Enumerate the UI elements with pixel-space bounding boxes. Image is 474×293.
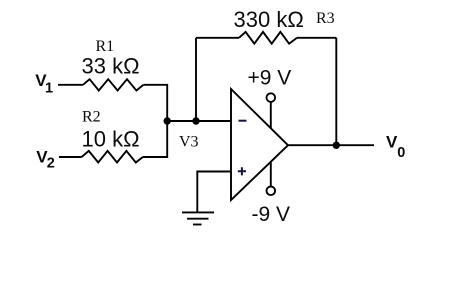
- label V1: [35, 71, 53, 96]
- wire feedback top left: [196, 37, 239, 39]
- resistor R3: [239, 32, 297, 44]
- svg-text:V: V: [386, 133, 398, 152]
- svg-text:330 kΩ: 330 kΩ: [234, 7, 304, 32]
- wire feedback top right: [297, 37, 336, 39]
- svg-text:2: 2: [47, 156, 55, 172]
- wire R1 to node: [143, 85, 167, 121]
- wire V1 lead: [58, 84, 83, 86]
- wire feedback left vertical: [195, 38, 197, 121]
- wire +9V pin: [270, 102, 272, 128]
- svg-text:R3: R3: [316, 10, 335, 27]
- wire V2 lead: [59, 156, 82, 158]
- svg-text:33 kΩ: 33 kΩ: [82, 53, 140, 78]
- svg-text:1: 1: [45, 80, 53, 96]
- resistor R1: [83, 79, 143, 90]
- op-amp minus sign: [239, 120, 247, 122]
- wire non-inverting input to ground: [197, 172, 231, 212]
- power -9V terminal circle: [267, 187, 276, 196]
- svg-text:10 kΩ: 10 kΩ: [82, 127, 140, 152]
- label V0: [386, 133, 405, 162]
- resistor R2: [82, 151, 143, 163]
- label V2: [36, 147, 55, 171]
- node output junction dot: [333, 142, 340, 149]
- svg-text:+9 V: +9 V: [248, 67, 292, 90]
- op-amp plus sign: [238, 167, 246, 175]
- node V3 junction dot: [164, 117, 171, 124]
- svg-text:-9 V: -9 V: [252, 203, 291, 226]
- ground: [182, 212, 214, 224]
- wire feedback right vertical: [335, 38, 337, 145]
- op-amp U1: [231, 89, 288, 200]
- node feedback junction dot: [192, 117, 199, 124]
- power +9V terminal circle: [267, 93, 276, 102]
- wire R2 to node: [143, 121, 167, 157]
- wire -9V pin: [270, 162, 272, 187]
- svg-text:0: 0: [397, 145, 405, 161]
- wire output: [288, 144, 374, 146]
- svg-text:R2: R2: [82, 108, 101, 125]
- wire node to op-amp inverting input: [167, 120, 231, 122]
- svg-text:V3: V3: [179, 134, 199, 151]
